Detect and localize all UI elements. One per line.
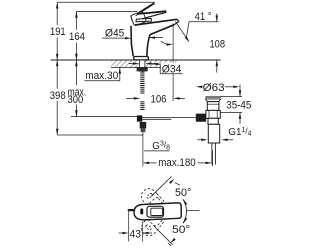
svg-text:50°: 50° [172, 224, 190, 236]
svg-text:max.30: max.30 [85, 70, 118, 82]
svg-text:164: 164 [69, 31, 85, 43]
svg-text:106: 106 [151, 93, 167, 105]
svg-text:50°: 50° [175, 187, 191, 199]
svg-text:41 °: 41 ° [195, 11, 212, 23]
svg-text:398: 398 [50, 90, 66, 102]
svg-text:Ø63: Ø63 [203, 82, 225, 94]
svg-text:108: 108 [209, 38, 225, 50]
svg-text:300: 300 [68, 94, 84, 106]
svg-text:Ø45: Ø45 [105, 27, 124, 39]
svg-text:35-45: 35-45 [226, 100, 251, 112]
svg-text:max.180: max.180 [158, 157, 195, 169]
svg-text:43: 43 [130, 229, 141, 241]
svg-text:191: 191 [50, 26, 66, 38]
